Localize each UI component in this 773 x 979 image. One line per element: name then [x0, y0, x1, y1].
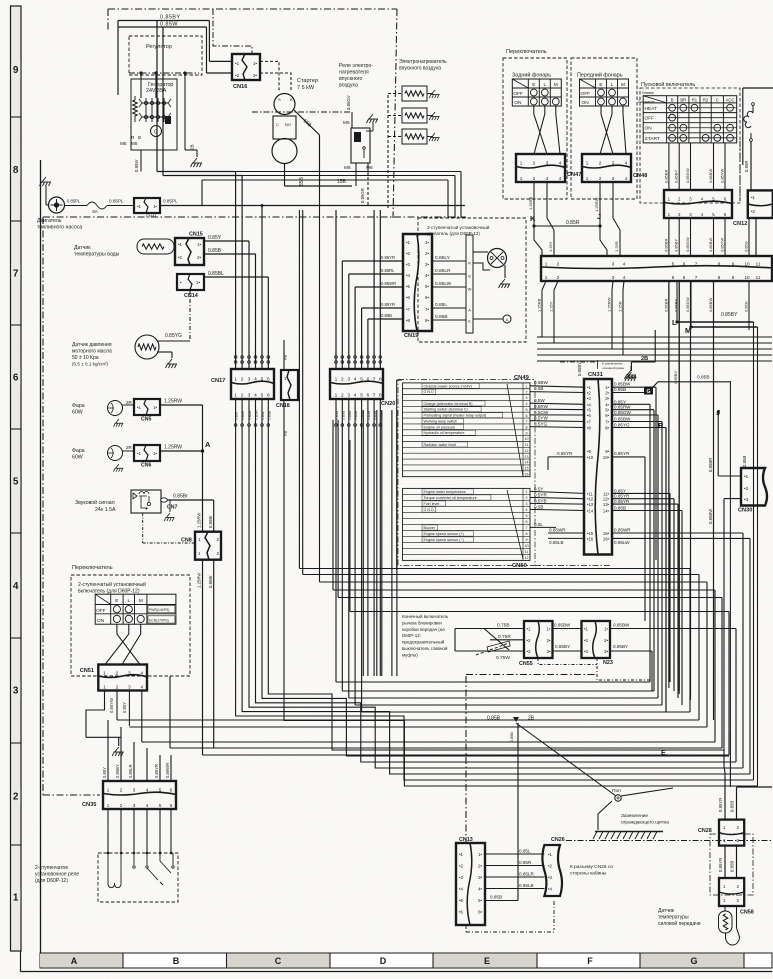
svg-text:0.5YR: 0.5YR: [534, 492, 547, 497]
right edge connector: [748, 190, 773, 218]
connector CN30: [741, 468, 767, 506]
svg-text:Engine water temperature: Engine water temperature: [424, 490, 466, 494]
svg-text:M: M: [621, 82, 625, 88]
page border left ruler bar: [11, 6, 22, 951]
svg-text:M: M: [554, 82, 558, 88]
relay internals: [108, 853, 121, 888]
svg-text:впускного воздуха: впускного воздуха: [399, 66, 441, 72]
svg-text:1: 1: [586, 161, 589, 166]
svg-text:CN12: CN12: [733, 221, 747, 227]
svg-text:0.85B: 0.85B: [487, 716, 501, 722]
svg-text:0.85YG: 0.85YG: [614, 423, 630, 428]
stepping motor dashed box: [418, 218, 526, 342]
svg-text:3•: 3•: [605, 396, 609, 401]
svg-text:F: F: [587, 956, 593, 966]
svg-text:CN5: CN5: [141, 417, 151, 423]
wires right of CN31 pins 11-14: [612, 492, 670, 494]
connector CN48: [582, 154, 631, 182]
svg-text:0.85YR: 0.85YR: [718, 798, 723, 812]
harness boundary dash-dot top: [108, 8, 397, 10]
svg-text:16: 16: [525, 472, 529, 476]
svg-text:4: 4: [625, 161, 628, 166]
svg-text:C: C: [716, 97, 719, 102]
svg-text:4•: 4•: [478, 887, 482, 892]
regulator box: [129, 36, 202, 75]
fuel pump motor M: [49, 197, 65, 213]
svg-text:•4: •4: [587, 402, 591, 407]
svg-text:Регулятор: Регулятор: [146, 44, 172, 50]
svg-text:0.85BL: 0.85BL: [208, 271, 224, 277]
svg-text:•2: •2: [235, 73, 240, 78]
svg-text:•6: •6: [459, 910, 464, 915]
svg-text:0.85BY: 0.85BY: [721, 312, 738, 318]
svg-text:•13: •13: [587, 502, 594, 507]
wires below CN47 to K: [533, 182, 535, 226]
wire N23 right down: [735, 629, 737, 763]
svg-text:1: 1: [13, 893, 19, 904]
svg-text:Звуковой сигнал: Звуковой сигнал: [75, 499, 115, 506]
wire CN31 pin8 stub down: [665, 428, 667, 713]
svg-text:E: E: [484, 956, 490, 966]
svg-text:•1: •1: [751, 195, 756, 200]
svg-text:14: 14: [525, 461, 529, 465]
wires below CN48 to J: [599, 182, 601, 226]
svg-text:3: 3: [13, 686, 19, 697]
svg-text:4: 4: [354, 376, 357, 382]
svg-text:2: 2: [241, 376, 244, 382]
svg-text:HEAT: HEAT: [645, 106, 658, 112]
svg-text:0.85R: 0.85R: [241, 410, 245, 420]
svg-text:CN35: CN35: [82, 802, 96, 808]
svg-text:0.5B: 0.5B: [534, 386, 543, 391]
svg-text:1•: 1•: [196, 280, 200, 285]
connector CN35: [103, 781, 176, 809]
left switch cross wires: [117, 624, 140, 664]
svg-text:0.85R: 0.85R: [744, 161, 749, 172]
svg-text:0.85BY: 0.85BY: [115, 764, 120, 778]
trunk columns below main connector: [668, 281, 670, 682]
svg-text:рычага блокировки: рычага блокировки: [402, 620, 442, 625]
svg-text:К разъему CN26 со: К разъему CN26 со: [570, 864, 613, 870]
wire CN16 right dashed to starter: [260, 61, 279, 92]
svg-text:2: 2: [341, 393, 344, 399]
svg-text:Двигатель: Двигатель: [37, 218, 62, 224]
svg-text:0.85BW: 0.85BW: [708, 169, 713, 183]
svg-text:0.85B: 0.85B: [381, 313, 392, 318]
svg-text:Датчик: Датчик: [74, 245, 91, 251]
wire CN16 left feeds: [209, 60, 232, 62]
svg-text:1.25RW: 1.25RW: [594, 197, 599, 212]
svg-text:CN8: CN8: [181, 538, 192, 544]
node A circle: [473, 318, 503, 320]
svg-text:G: G: [690, 956, 697, 966]
rear lamp switch dashed box: [503, 58, 567, 199]
wires mid verticals down: [362, 410, 364, 676]
svg-text:7•: 7•: [425, 307, 429, 312]
svg-text:•1: •1: [587, 385, 591, 390]
wire relay M6 down: [355, 163, 357, 186]
generator terminal wires: [129, 72, 199, 74]
svg-text:2•: 2•: [253, 73, 258, 78]
svg-text:0.5GW: 0.5GW: [534, 410, 549, 415]
svg-text:5: 5: [672, 262, 675, 267]
svg-text:6: 6: [170, 788, 173, 793]
svg-text:7: 7: [695, 275, 698, 280]
svg-text:4: 4: [141, 670, 144, 675]
svg-text:B: B: [290, 97, 293, 102]
wires below CN20: [335, 424, 338, 427]
svg-text:Engine oil pressure: Engine oil pressure: [424, 425, 456, 429]
svg-text:5: 5: [13, 477, 19, 488]
svg-text:16•: 16•: [603, 536, 610, 541]
svg-text:•4: •4: [548, 887, 553, 892]
svg-text:1•: 1•: [478, 852, 482, 857]
svg-text:2R: 2R: [126, 445, 133, 450]
svg-text:Chassis power source (+24V): Chassis power source (+24V): [424, 384, 472, 388]
svg-text:0.85GW: 0.85GW: [614, 410, 632, 415]
svg-text:8: 8: [718, 275, 721, 280]
wires down to CN28 come from trunk: [729, 732, 731, 787]
svg-text:•1: •1: [406, 240, 411, 245]
svg-text:1: 1: [335, 376, 338, 382]
svg-text:•16: •16: [587, 536, 594, 541]
svg-text:1.25R: 1.25R: [614, 241, 619, 252]
ground generator E: [191, 158, 203, 167]
svg-text:15•: 15•: [603, 531, 610, 536]
svg-text:1: 1: [103, 684, 106, 689]
svg-text:6: 6: [367, 376, 370, 382]
svg-text:OFF: OFF: [645, 116, 655, 122]
svg-text:•3: •3: [459, 875, 464, 880]
svg-text:3: 3: [526, 502, 528, 506]
svg-text:E: E: [115, 598, 118, 604]
svg-text:1.25RW: 1.25RW: [197, 572, 202, 588]
svg-text:0.85B: 0.85B: [614, 387, 626, 392]
svg-text:0.85LW: 0.85LW: [435, 281, 452, 287]
svg-text:10: 10: [525, 437, 529, 441]
svg-text:2: 2: [533, 176, 536, 181]
svg-text:5: 5: [526, 408, 528, 412]
fuse 3A: [87, 202, 107, 209]
svg-text:6: 6: [683, 262, 686, 267]
svg-text:4•: 4•: [605, 402, 609, 407]
svg-text:2B: 2B: [190, 144, 195, 150]
svg-text:L: L: [127, 598, 130, 604]
svg-text:основной рамы: основной рамы: [602, 366, 625, 370]
connector CN15: [175, 238, 204, 265]
wire node A down: [202, 405, 204, 451]
svg-text:B: B: [671, 97, 674, 102]
svg-text:1•: 1•: [547, 627, 551, 632]
wires below CN17 Z-staircase: [236, 399, 754, 780]
svg-text:R: R: [468, 262, 471, 266]
svg-text:0.85YR: 0.85YR: [557, 451, 573, 456]
svg-text:8: 8: [526, 532, 528, 536]
svg-text:муфты): муфты): [402, 652, 418, 657]
wires CN19 left stubs: [342, 260, 403, 262]
generator G circle: [151, 126, 162, 137]
svg-text:нагревателя: нагревателя: [339, 70, 369, 76]
svg-text:•3: •3: [406, 262, 411, 267]
svg-text:0.85W: 0.85W: [255, 409, 259, 420]
svg-text:3A: 3A: [92, 209, 99, 215]
svg-text:0.85YW: 0.85YW: [720, 169, 725, 183]
svg-text:0.85YW: 0.85YW: [109, 698, 114, 713]
ground stepping motor: [499, 279, 511, 288]
svg-text:0.85Br: 0.85Br: [208, 515, 213, 528]
svg-text:12: 12: [525, 449, 529, 453]
svg-text:•2: •2: [406, 251, 411, 256]
svg-text:CN49: CN49: [514, 375, 530, 381]
wires CN28 to CN58: [724, 846, 726, 878]
svg-text:0.5RW: 0.5RW: [534, 404, 549, 409]
svg-text:3•: 3•: [478, 875, 482, 880]
svg-text:D60P-12:: D60P-12:: [402, 633, 421, 638]
svg-text:1: 1: [103, 670, 106, 675]
wire 0.85G right: [748, 218, 750, 256]
svg-text:Radiator water level: Radiator water level: [424, 443, 457, 447]
svg-text:7: 7: [13, 269, 19, 280]
svg-text:0.85YR: 0.85YR: [718, 858, 723, 872]
svg-text:0.85Br: 0.85Br: [208, 575, 213, 588]
svg-text:1: 1: [234, 376, 237, 382]
boundary dash-dot mid: [43, 216, 466, 218]
svg-text:2: 2: [120, 788, 123, 793]
svg-text:B: B: [138, 135, 141, 140]
svg-text:•6: •6: [587, 413, 591, 418]
left switch table: [95, 594, 176, 624]
svg-text:0.85L: 0.85L: [435, 302, 447, 308]
svg-text:•2: •2: [178, 255, 183, 260]
svg-text:CN26: CN26: [551, 837, 565, 843]
svg-text:4: 4: [254, 393, 257, 399]
trunk dash-dot line: [466, 674, 597, 676]
svg-text:0.85PL: 0.85PL: [109, 199, 124, 204]
svg-text:START: START: [645, 136, 660, 142]
wires below CN35: [107, 809, 109, 853]
svg-text:6: 6: [267, 376, 270, 382]
svg-text:CN55: CN55: [519, 661, 533, 667]
svg-text:Реле электро-: Реле электро-: [339, 63, 373, 69]
svg-text:•7: •7: [406, 307, 411, 312]
svg-text:3: 3: [133, 788, 136, 793]
rear switch cross wires: [534, 106, 547, 154]
svg-text:0.5YW: 0.5YW: [534, 416, 548, 421]
wires into CN55 left: [455, 628, 524, 630]
svg-text:0.5YG: 0.5YG: [534, 422, 547, 427]
wire L/M bar right: [677, 321, 754, 323]
svg-text:3: 3: [128, 670, 131, 675]
svg-text:0.85BY: 0.85BY: [674, 299, 679, 312]
svg-text:1•: 1•: [153, 405, 157, 410]
table dash-dot border: [398, 380, 535, 566]
svg-text:0.85BY: 0.85BY: [674, 170, 679, 183]
wire fuel pump 0.85PL: [65, 205, 88, 207]
svg-text:4: 4: [254, 376, 257, 382]
svg-text:0.85W: 0.85W: [160, 22, 178, 28]
svg-text:0.85G: 0.85G: [744, 241, 749, 252]
svg-text:Фара: Фара: [72, 448, 85, 454]
svg-text:0.5YB: 0.5YB: [534, 498, 547, 503]
ground CN51: [112, 747, 124, 756]
svg-text:AB: AB: [283, 430, 288, 436]
svg-text:N23: N23: [603, 660, 613, 666]
svg-text:0.85B: 0.85B: [490, 895, 502, 900]
svg-text:0.5Y: 0.5Y: [534, 486, 543, 491]
svg-text:5: 5: [159, 788, 162, 793]
dash below CN55: [538, 658, 597, 665]
svg-text:4: 4: [559, 176, 562, 181]
connector N23: [582, 621, 611, 658]
svg-text:R2: R2: [703, 97, 709, 102]
svg-text:0.85PL: 0.85PL: [163, 199, 178, 204]
svg-text:CN41: CN41: [146, 214, 157, 219]
svg-text:0.85YR: 0.85YR: [614, 494, 630, 499]
svg-text:OFF: OFF: [581, 91, 591, 97]
svg-text:5: 5: [159, 803, 162, 808]
svg-text:0.85L: 0.85L: [261, 411, 265, 420]
dash-dot from CN26: [566, 840, 772, 842]
svg-text:•2: •2: [527, 638, 532, 643]
svg-text:3: 3: [347, 393, 350, 399]
svg-text:0.85YR: 0.85YR: [614, 451, 630, 456]
svg-text:0.85PL: 0.85PL: [67, 199, 81, 204]
svg-text:0.5W: 0.5W: [534, 398, 545, 403]
svg-text:0.85B: 0.85B: [730, 861, 735, 872]
svg-text:10: 10: [525, 544, 529, 548]
svg-text:1.25RW: 1.25RW: [164, 399, 182, 405]
svg-text:G: G: [154, 130, 158, 136]
connector CN19: [403, 234, 432, 331]
svg-text:•10: •10: [587, 455, 594, 460]
svg-text:•2: •2: [584, 638, 589, 643]
svg-text:2: 2: [241, 393, 244, 399]
svg-text:CN17: CN17: [211, 378, 225, 384]
motor wiring: [473, 251, 488, 253]
svg-text:11: 11: [525, 550, 529, 554]
svg-text:Preheating signal (heater rela: Preheating signal (heater relay output): [424, 414, 487, 418]
svg-text:1: 1: [526, 490, 528, 494]
svg-text:1•: 1•: [153, 204, 157, 209]
svg-text:2: 2: [557, 275, 560, 280]
svg-text:Starting switch (terminal C): Starting switch (terminal C): [424, 408, 468, 412]
svg-text:0.85R: 0.85R: [566, 220, 580, 226]
svg-text:•3: •3: [584, 649, 589, 654]
svg-text:К заземлению: К заземлению: [602, 362, 623, 366]
connector CN47: [516, 154, 565, 182]
svg-text:A: A: [468, 309, 471, 313]
svg-text:2-ступенчатый установочный: 2-ступенчатый установочный: [427, 224, 490, 230]
svg-text:15: 15: [525, 467, 529, 471]
svg-text:0.85Y: 0.85Y: [208, 235, 222, 241]
svg-text:1.25Y: 1.25Y: [548, 241, 553, 252]
boundary dash-dot right: [739, 141, 741, 201]
svg-text:6: 6: [683, 275, 686, 280]
svg-text:Задний фонарь: Задний фонарь: [512, 72, 551, 79]
front lamp switch dashed box: [571, 58, 637, 199]
svg-text:13: 13: [525, 455, 529, 459]
svg-text:ON: ON: [514, 100, 522, 106]
svg-text:0.85LR: 0.85LR: [435, 268, 451, 274]
svg-text:Клемма: Клемма: [642, 91, 654, 95]
wires CN49 to CN31 rows 1-2: [530, 386, 584, 387]
svg-text:8: 8: [526, 426, 528, 430]
svg-text:температуры: температуры: [658, 915, 689, 921]
svg-text:2-ступенчатый установочный: 2-ступенчатый установочный: [78, 581, 146, 588]
svg-text:G: G: [646, 389, 650, 395]
svg-text:NO: NO: [285, 122, 291, 127]
svg-text:•1: •1: [137, 405, 141, 410]
svg-text:0.85LW: 0.85LW: [614, 540, 630, 545]
svg-text:4: 4: [13, 581, 19, 592]
svg-text:2: 2: [599, 161, 602, 166]
svg-text:9: 9: [526, 538, 528, 542]
wire 0.85W down from generator: [140, 150, 142, 172]
svg-text:10: 10: [744, 275, 750, 280]
svg-text:6: 6: [526, 414, 528, 418]
svg-text:•5: •5: [406, 284, 411, 289]
svg-text:•3: •3: [587, 396, 591, 401]
svg-text:E: E: [661, 750, 666, 757]
svg-text:0.75W: 0.75W: [496, 655, 510, 661]
svg-text:0.85BW: 0.85BW: [614, 382, 631, 387]
wire right of CN31 pin 10: [612, 456, 645, 458]
svg-text:7: 7: [526, 420, 528, 424]
front switch cross wires: [601, 106, 613, 154]
svg-text:2: 2: [599, 176, 602, 181]
svg-text:2: 2: [116, 684, 119, 689]
svg-text:4: 4: [623, 262, 626, 267]
svg-text:2•: 2•: [547, 638, 551, 643]
svg-text:0.85YG: 0.85YG: [165, 333, 182, 339]
svg-text:•1: •1: [584, 627, 589, 632]
svg-text:60W: 60W: [72, 455, 83, 461]
svg-text:Пусковой включатель: Пусковой включатель: [641, 81, 695, 88]
svg-text:1: 1: [545, 262, 548, 267]
svg-text:0.5L: 0.5L: [534, 522, 543, 527]
svg-text:C: C: [275, 956, 282, 966]
svg-text:Working lamp switch: Working lamp switch: [424, 419, 458, 423]
svg-text:1.25RB: 1.25RB: [537, 298, 542, 312]
svg-text:4: 4: [623, 275, 626, 280]
shield ground: [598, 801, 612, 830]
svg-text:0.85BR: 0.85BR: [663, 299, 668, 312]
start switch dashed box: [640, 88, 740, 203]
svg-text:7 5 kW: 7 5 kW: [297, 85, 315, 91]
connector CN6: [134, 445, 160, 461]
svg-text:0.85B: 0.85B: [614, 506, 626, 511]
svg-text:0.75B: 0.75B: [497, 623, 510, 629]
table left edge line: [396, 380, 398, 570]
wires above CN35: [107, 720, 109, 781]
ground oil pressure sensor: [166, 359, 178, 368]
svg-text:85B: 85B: [299, 176, 305, 186]
wire CN6 1.25RW: [160, 450, 203, 452]
svg-text:•2: •2: [459, 864, 464, 869]
svg-text:4: 4: [354, 393, 357, 399]
wire CN5 1.25RW: [160, 404, 203, 406]
svg-text:9•: 9•: [605, 449, 609, 454]
svg-text:0.85B: 0.85B: [730, 801, 735, 812]
svg-text:Buzzer: Buzzer: [424, 526, 436, 530]
svg-text:Charge (alternator terminal R): Charge (alternator terminal R): [424, 402, 473, 406]
svg-text:•1: •1: [459, 852, 464, 857]
svg-text:6•: 6•: [478, 910, 482, 915]
svg-text:7: 7: [526, 526, 528, 530]
svg-text:1.25RW: 1.25RW: [164, 445, 182, 451]
table CN49 fan diagonal: [507, 384, 523, 476]
bottom ruler band: [40, 953, 772, 968]
